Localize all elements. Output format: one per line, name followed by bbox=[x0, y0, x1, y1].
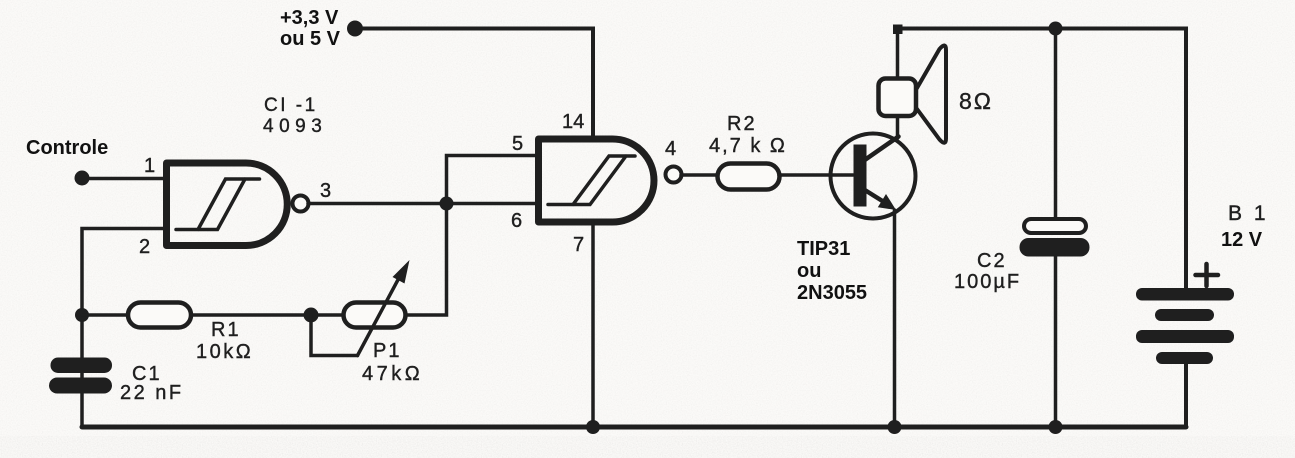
label +3,3V ou 5V supply bbox=[280, 7, 341, 50]
svg-text:47kΩ: 47kΩ bbox=[362, 363, 423, 385]
potentiometer P1 body bbox=[344, 303, 406, 328]
svg-text:22 nF: 22 nF bbox=[120, 382, 184, 404]
wire R2 to base bbox=[779, 173, 853, 177]
svg-text:1: 1 bbox=[144, 155, 155, 177]
nand gate U1b schmitt symbol bbox=[548, 156, 635, 205]
svg-text:8Ω: 8Ω bbox=[959, 88, 993, 114]
svg-text:2N3055: 2N3055 bbox=[797, 282, 867, 304]
battery B1 plate 2 bbox=[1155, 309, 1214, 321]
scan noise bottom band bbox=[0, 436, 1295, 458]
svg-text:ou 5 V: ou 5 V bbox=[280, 28, 341, 50]
junction node C2 ground bbox=[1049, 420, 1063, 434]
nand gate U1a schmitt symbol bbox=[176, 179, 260, 230]
wire R1 to P1 bbox=[191, 313, 344, 317]
resistor R1 body bbox=[128, 303, 191, 328]
battery plus sign bbox=[1196, 264, 1219, 286]
wire top right rail to battery bbox=[898, 29, 1187, 289]
wire feedback down to P1 bbox=[405, 204, 447, 316]
capacitor C1 plate top bbox=[51, 358, 113, 374]
svg-text:4,7 k Ω: 4,7 k Ω bbox=[709, 135, 787, 157]
wire pin 4 to R2 bbox=[681, 173, 718, 177]
svg-text:10kΩ: 10kΩ bbox=[196, 341, 253, 363]
battery B1 plate 4 bbox=[1156, 352, 1213, 364]
svg-text:5: 5 bbox=[512, 133, 523, 155]
speaker LS1 horn bbox=[917, 45, 946, 142]
resistor R2 body bbox=[718, 164, 780, 190]
svg-text:4: 4 bbox=[665, 138, 676, 160]
transistor Q1 circle bbox=[831, 134, 916, 219]
nand gate U1a output bubble bbox=[293, 196, 309, 212]
label TIP31 ou 2N3055 bbox=[797, 238, 867, 304]
wire pin 7 to ground bbox=[591, 222, 595, 427]
svg-text:B 1: B 1 bbox=[1228, 202, 1269, 225]
controle terminal dot bbox=[75, 171, 90, 186]
svg-text:+3,3 V: +3,3 V bbox=[280, 7, 339, 29]
transistor Q1 emitter arrowhead bbox=[878, 194, 896, 210]
nand gate U1b body bbox=[539, 139, 654, 222]
wire C2 bottom bbox=[1054, 256, 1058, 427]
wire supply rail to pin 14 bbox=[362, 29, 593, 138]
wire collector to speaker bbox=[896, 29, 900, 139]
wire battery bottom bbox=[1184, 364, 1188, 427]
svg-text:3: 3 bbox=[320, 180, 331, 202]
wire C2 top bbox=[1054, 29, 1058, 220]
wire rail to R1 bbox=[82, 313, 128, 317]
P1 wiper tie bracket bbox=[311, 315, 358, 356]
svg-text:6: 6 bbox=[511, 210, 522, 232]
P1 wiper arrow bbox=[358, 276, 401, 356]
capacitor C2 plate top bbox=[1024, 219, 1086, 233]
junction node C2 top bbox=[1049, 22, 1063, 36]
svg-text:C2: C2 bbox=[977, 250, 1007, 272]
svg-text:R2: R2 bbox=[727, 113, 757, 135]
svg-text:R1: R1 bbox=[211, 319, 241, 341]
wire emitter to ground bbox=[893, 210, 897, 427]
capacitor C2 plate bottom bbox=[1020, 238, 1090, 257]
capacitor C1 plate bottom bbox=[49, 378, 112, 394]
battery B1 plate 1 bbox=[1136, 288, 1234, 301]
wire gate1 output to gate2 pin 6 bbox=[308, 202, 539, 206]
svg-text:4093: 4093 bbox=[263, 116, 327, 137]
svg-text:12 V: 12 V bbox=[1221, 229, 1263, 251]
transistor Q1 emitter stroke bbox=[864, 190, 888, 205]
junction node P1 left bbox=[304, 308, 319, 323]
corner node top right rail bbox=[893, 25, 903, 35]
junction node gate1 output bbox=[440, 197, 454, 211]
svg-text:14: 14 bbox=[562, 111, 584, 133]
svg-text:ou: ou bbox=[797, 260, 821, 282]
wire controle to pin 1 bbox=[89, 177, 167, 181]
wire bottom ground rail bbox=[82, 425, 1186, 430]
junction node left rail / R1 bbox=[75, 308, 89, 322]
supply terminal dot bbox=[347, 21, 363, 37]
wire pin 2 to left rail bbox=[82, 229, 167, 428]
svg-text:Controle: Controle bbox=[26, 137, 108, 159]
svg-text:7: 7 bbox=[573, 234, 584, 256]
nand gate U1a body bbox=[167, 163, 288, 246]
svg-text:TIP31: TIP31 bbox=[797, 238, 850, 260]
junction node pin7 ground bbox=[586, 420, 600, 434]
svg-text:P1: P1 bbox=[373, 340, 401, 362]
junction node emitter ground bbox=[888, 420, 902, 434]
speaker LS1 box bbox=[879, 79, 917, 117]
battery B1 plate 3 bbox=[1136, 330, 1234, 343]
wire branch up to pin 5 bbox=[447, 156, 540, 204]
svg-text:CI -1: CI -1 bbox=[264, 95, 318, 116]
svg-text:100µF: 100µF bbox=[954, 271, 1021, 293]
svg-text:2: 2 bbox=[139, 236, 150, 258]
transistor Q1 base bar bbox=[854, 145, 867, 207]
nand gate U1b output bubble bbox=[666, 167, 682, 183]
transistor Q1 collector stroke bbox=[864, 137, 899, 161]
